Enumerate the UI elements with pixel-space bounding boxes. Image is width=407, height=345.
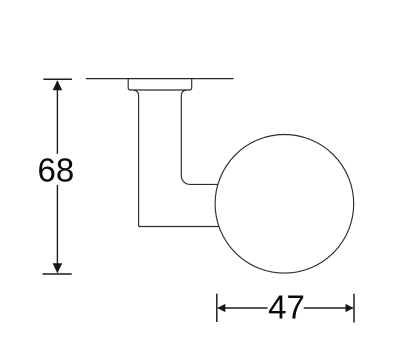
svg-text:68: 68 <box>38 151 75 188</box>
dim 47 left arrow <box>217 304 225 312</box>
knob ball <box>215 135 354 274</box>
dim 68 down arrow <box>53 263 63 273</box>
wall surface line <box>86 78 234 80</box>
dim 68 top extension tick <box>43 78 72 80</box>
dim 47 right line segment <box>304 307 353 309</box>
dim 47 right arrow <box>346 304 354 312</box>
mounting flange plate <box>128 79 192 90</box>
svg-text:47: 47 <box>268 289 305 326</box>
dim 68 bottom extension tick <box>43 273 72 275</box>
neck bottom edge wire <box>139 226 219 228</box>
dim 68 lower line segment <box>56 185 58 273</box>
neck left fillet and left edge <box>133 90 138 227</box>
dim 47 left line segment <box>218 307 268 309</box>
dim 68 upper line segment <box>56 81 58 154</box>
dim 68 up arrow <box>53 80 63 90</box>
neck right fillet, inner edge and corner <box>181 90 218 184</box>
dim 47 left extension tick <box>216 294 218 322</box>
dim 47 right extension tick <box>353 294 355 323</box>
